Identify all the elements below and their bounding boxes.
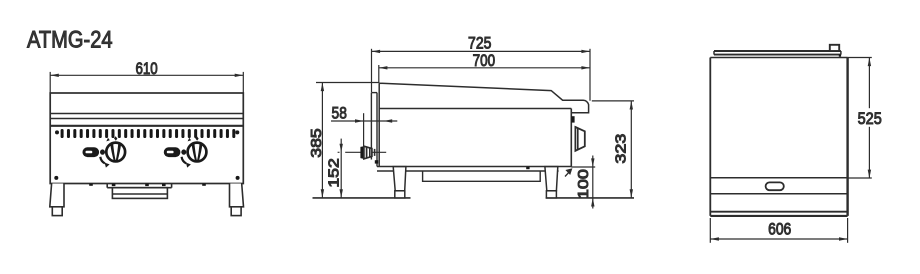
side view knob profile xyxy=(571,116,585,151)
dimension 700 (plate depth) xyxy=(379,51,590,83)
ground reference line right xyxy=(546,197,634,199)
svg-text:323: 323 xyxy=(613,134,630,164)
top view body outline xyxy=(710,58,847,216)
dimension 725 (side view overall depth) xyxy=(372,34,591,101)
dimension 323 (body height) xyxy=(592,101,634,198)
front view left leg xyxy=(50,184,64,216)
dimension 525 (top view depth) xyxy=(848,58,882,179)
side view back panel xyxy=(371,93,377,167)
side view recessed bottom panel xyxy=(423,171,541,181)
control knob 1 xyxy=(83,136,126,167)
svg-text:610: 610 xyxy=(135,59,157,78)
front view burner box tier 1 xyxy=(107,184,171,188)
svg-text:58: 58 xyxy=(332,104,347,123)
front panel screw dots xyxy=(54,130,239,180)
dimension 100 (leg height) xyxy=(565,156,595,209)
dimension 606 (top view width) xyxy=(710,218,847,243)
gas inlet centerline xyxy=(338,151,387,153)
front view right leg xyxy=(230,184,244,216)
svg-text:100: 100 xyxy=(575,169,592,199)
side view lower skirt line xyxy=(377,170,559,172)
dimension 152 (gas inlet height) xyxy=(326,139,343,198)
front view body outline xyxy=(50,93,243,184)
back face dot xyxy=(375,160,378,163)
front view louver vent row xyxy=(61,129,236,138)
svg-text:725: 725 xyxy=(468,34,491,53)
svg-text:152: 152 xyxy=(326,158,343,188)
side view front leg xyxy=(545,167,558,198)
drain tick under body xyxy=(526,167,529,169)
svg-text:525: 525 xyxy=(858,109,882,128)
svg-text:606: 606 xyxy=(768,220,791,239)
top view grease trough lines xyxy=(710,178,847,212)
top view manifold bar xyxy=(714,51,841,55)
front view griddle plate edge lines xyxy=(50,114,243,126)
front view mounting ticks under body xyxy=(89,184,206,187)
side view griddle plate profile xyxy=(379,83,588,166)
svg-text:700: 700 xyxy=(473,51,496,70)
control knob 2 xyxy=(164,136,207,167)
dimension 58 (gas inlet projection) xyxy=(331,104,397,147)
dimension 610 (front view width) xyxy=(50,59,243,93)
svg-text:ATMG-24: ATMG-24 xyxy=(27,26,113,53)
side view body front face xyxy=(570,109,572,167)
dimension 385 (overall height) xyxy=(308,82,379,197)
gas connection fitting on manifold xyxy=(830,45,841,57)
front view burner box tier 2 xyxy=(112,188,167,199)
model title ATMG-24 xyxy=(27,26,113,53)
gas inlet fitting xyxy=(360,146,374,159)
ground reference line left xyxy=(313,197,411,199)
svg-text:385: 385 xyxy=(308,128,325,158)
side view back leg xyxy=(393,167,406,198)
side view body top edge xyxy=(379,108,571,110)
drain oval xyxy=(766,182,784,190)
side view body bottom edge xyxy=(377,166,571,168)
